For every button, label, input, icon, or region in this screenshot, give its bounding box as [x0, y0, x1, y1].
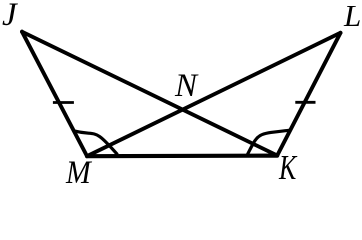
label L — [344, 0, 361, 31]
tick mark on JM — [53, 101, 74, 104]
label M — [66, 157, 91, 190]
tick mark on LK — [295, 101, 315, 104]
segment JK — [22, 32, 277, 156]
label J — [2, 0, 17, 32]
segment MK — [87, 154, 277, 159]
angle arc at M — [74, 131, 117, 155]
segment LK — [277, 33, 340, 156]
label N — [175, 70, 197, 103]
segment LM — [87, 33, 341, 156]
angle arc at K — [247, 130, 290, 155]
segment JM — [22, 32, 87, 156]
label K — [279, 150, 296, 185]
